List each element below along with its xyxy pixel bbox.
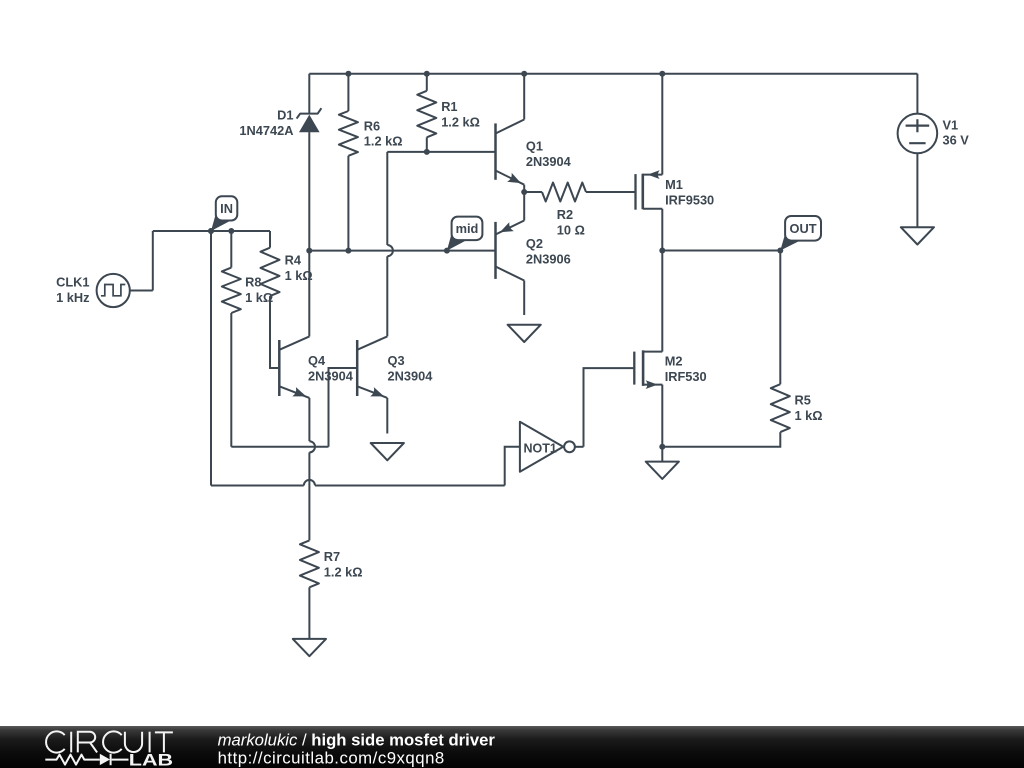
wire D1 cathode (308, 74, 310, 114)
wire R8 bottom lead (230, 313, 232, 447)
wire R6 top lead (347, 74, 349, 111)
CircuitLab logo CIRCUIT (46, 731, 173, 752)
CircuitLab logo diode triangle (100, 754, 110, 765)
svg-text:IN: IN (220, 201, 233, 216)
hop Q3 riser over mid rail (387, 245, 393, 256)
wire CLK1 riser (152, 231, 154, 291)
wire NOT1 output (575, 446, 583, 448)
wire M1 drain riser (661, 74, 663, 175)
svg-text:1 kHz: 1 kHz (56, 290, 89, 305)
hop vertical over lower rail (309, 441, 315, 452)
node R8 top (228, 228, 234, 234)
wire out rail (662, 250, 780, 252)
node mid-D1 (306, 248, 312, 254)
node top-Q1 (521, 71, 527, 77)
svg-text:2N3906: 2N3906 (526, 252, 571, 267)
wire R2 to M1 gate (586, 191, 635, 193)
wire Q3 collector riser upper (386, 152, 388, 245)
svg-text:R5: R5 (795, 393, 811, 408)
svg-text:M2: M2 (665, 354, 683, 369)
wire M1 source drop (661, 209, 663, 251)
wire R4 bottom to Q4 base (270, 296, 279, 368)
svg-text:2N3904: 2N3904 (308, 369, 354, 384)
wire Q3 emitter drop (386, 398, 388, 434)
ground R7 (293, 639, 326, 656)
svg-text:R1: R1 (441, 99, 457, 114)
wire Q3 base riser (329, 368, 358, 447)
wire R8 row to Q3 base riser (231, 446, 328, 448)
wire node to R2 (524, 191, 542, 193)
svg-text:1N4742A: 1N4742A (239, 123, 293, 138)
node mid-R6 (345, 248, 351, 254)
svg-text:NOT1: NOT1 (524, 441, 557, 455)
node M2 source (659, 444, 665, 450)
wire V1 bottom lead (916, 153, 918, 227)
flag OUT (780, 231, 801, 250)
resistor R1 (417, 91, 436, 138)
svg-text:1 kΩ: 1 kΩ (285, 268, 313, 283)
svg-text:R2: R2 (557, 207, 573, 222)
svg-text:1 kΩ: 1 kΩ (795, 408, 823, 423)
wire M2 drain riser (661, 251, 663, 352)
wire V1 top lead (916, 74, 918, 114)
wire Q1 collector riser (523, 74, 525, 120)
svg-text:LAB: LAB (129, 750, 173, 768)
svg-text:D1: D1 (277, 108, 293, 123)
wire R5 bottom lead (662, 432, 780, 447)
svg-text:Q3: Q3 (388, 353, 405, 368)
svg-text:Q4: Q4 (308, 353, 326, 368)
svg-text:CLK1: CLK1 (56, 275, 89, 290)
svg-text:1.2 kΩ: 1.2 kΩ (364, 134, 403, 149)
wire R7 bottom lead (308, 587, 310, 639)
svg-text:R6: R6 (364, 118, 380, 133)
transistor M2 (633, 352, 635, 385)
node top-R1 (424, 71, 430, 77)
node R1 bottom (424, 149, 430, 155)
transistor Q1 (494, 123, 497, 179)
wire top rail (309, 73, 917, 75)
wire Q2 collector drop (523, 281, 525, 316)
svg-text:R4: R4 (285, 253, 302, 268)
ground Q2 collector (508, 325, 541, 342)
wire R5 top lead (779, 251, 781, 385)
ground M2 source (646, 462, 679, 479)
flag IN (211, 211, 232, 231)
wire CLK1 lead (130, 290, 153, 292)
wire R1-row to Q1 base (387, 151, 495, 153)
svg-text:Q2: Q2 (526, 236, 543, 251)
wire R1 bottom lead (426, 137, 428, 152)
wire M2 source drop (661, 385, 663, 447)
wire IN drop (210, 231, 212, 486)
svg-text:mid: mid (456, 221, 479, 236)
svg-text:1 kΩ: 1 kΩ (245, 290, 273, 305)
wire R8 top lead (230, 231, 232, 268)
svg-text:R7: R7 (324, 549, 340, 564)
wire D1 anode to Q4 collector (308, 132, 310, 336)
resistor R7 (300, 540, 319, 587)
wire R1 top lead (426, 74, 428, 91)
source CLK1 symbol (97, 274, 130, 307)
gate NOT1 (520, 422, 563, 472)
hop horizontal over R7 line (304, 480, 315, 486)
svg-text:M1: M1 (665, 177, 683, 192)
wire Q4 emitter drop upper (308, 398, 310, 441)
svg-text:V1: V1 (943, 117, 959, 132)
resistor R5 (771, 384, 790, 432)
svg-text:IRF9530: IRF9530 (665, 193, 714, 208)
node R2-Q1-Q2 (521, 189, 527, 195)
svg-text:R8: R8 (245, 275, 261, 290)
wire Q2 emitter riser (523, 192, 525, 221)
svg-text:2N3904: 2N3904 (388, 369, 434, 384)
node IN (208, 228, 214, 234)
svg-text:1.2 kΩ: 1.2 kΩ (441, 114, 480, 129)
transistor M1 (634, 174, 636, 210)
resistor R2 (542, 183, 586, 202)
wire Q3 collector riser lower (386, 256, 388, 336)
wire Q1 emitter to node (523, 185, 525, 192)
wire M2 source to ground (661, 447, 663, 462)
resistor R8 (222, 268, 241, 313)
resistor R6 (339, 111, 358, 156)
resistor R4 (261, 248, 280, 296)
transistor Q3 (356, 340, 359, 396)
svg-text:10 Ω: 10 Ω (557, 222, 585, 237)
svg-text:36 V: 36 V (943, 133, 970, 148)
wire mid rail (309, 250, 495, 252)
node top-M1 (659, 71, 665, 77)
svg-text:IRF530: IRF530 (665, 369, 707, 384)
wire NOT1 to M2 gate (584, 368, 634, 447)
wire lower rail left (211, 485, 304, 487)
svg-text:1.2 kΩ: 1.2 kΩ (324, 565, 363, 580)
transistor Q2 (494, 222, 497, 279)
CircuitLab logo squiggle (45, 754, 128, 765)
wire NOT1 input riser (505, 447, 520, 486)
node top-R6 (345, 71, 351, 77)
source V1 symbol (898, 114, 938, 154)
diode D1 symbol (299, 115, 320, 133)
wire R6 bottom lead (347, 156, 349, 251)
wire lower rail right (315, 485, 505, 487)
node out-M1 (659, 248, 665, 254)
ground Q3 emitter (371, 443, 404, 460)
transistor Q4 (278, 340, 281, 396)
svg-text:http://circuitlab.com/c9xqqn8: http://circuitlab.com/c9xqqn8 (218, 748, 445, 767)
ground V1 (901, 227, 934, 244)
svg-text:2N3904: 2N3904 (526, 154, 572, 169)
svg-text:markolukic / high side mosfet: markolukic / high side mosfet driver (218, 731, 496, 750)
wire IN rail (153, 230, 270, 232)
svg-text:OUT: OUT (790, 221, 817, 236)
flag mid (447, 231, 468, 251)
svg-text:Q1: Q1 (526, 139, 543, 154)
wire Q4 emitter drop lower to R7 (308, 452, 310, 540)
wire R4 top lead (269, 231, 271, 248)
